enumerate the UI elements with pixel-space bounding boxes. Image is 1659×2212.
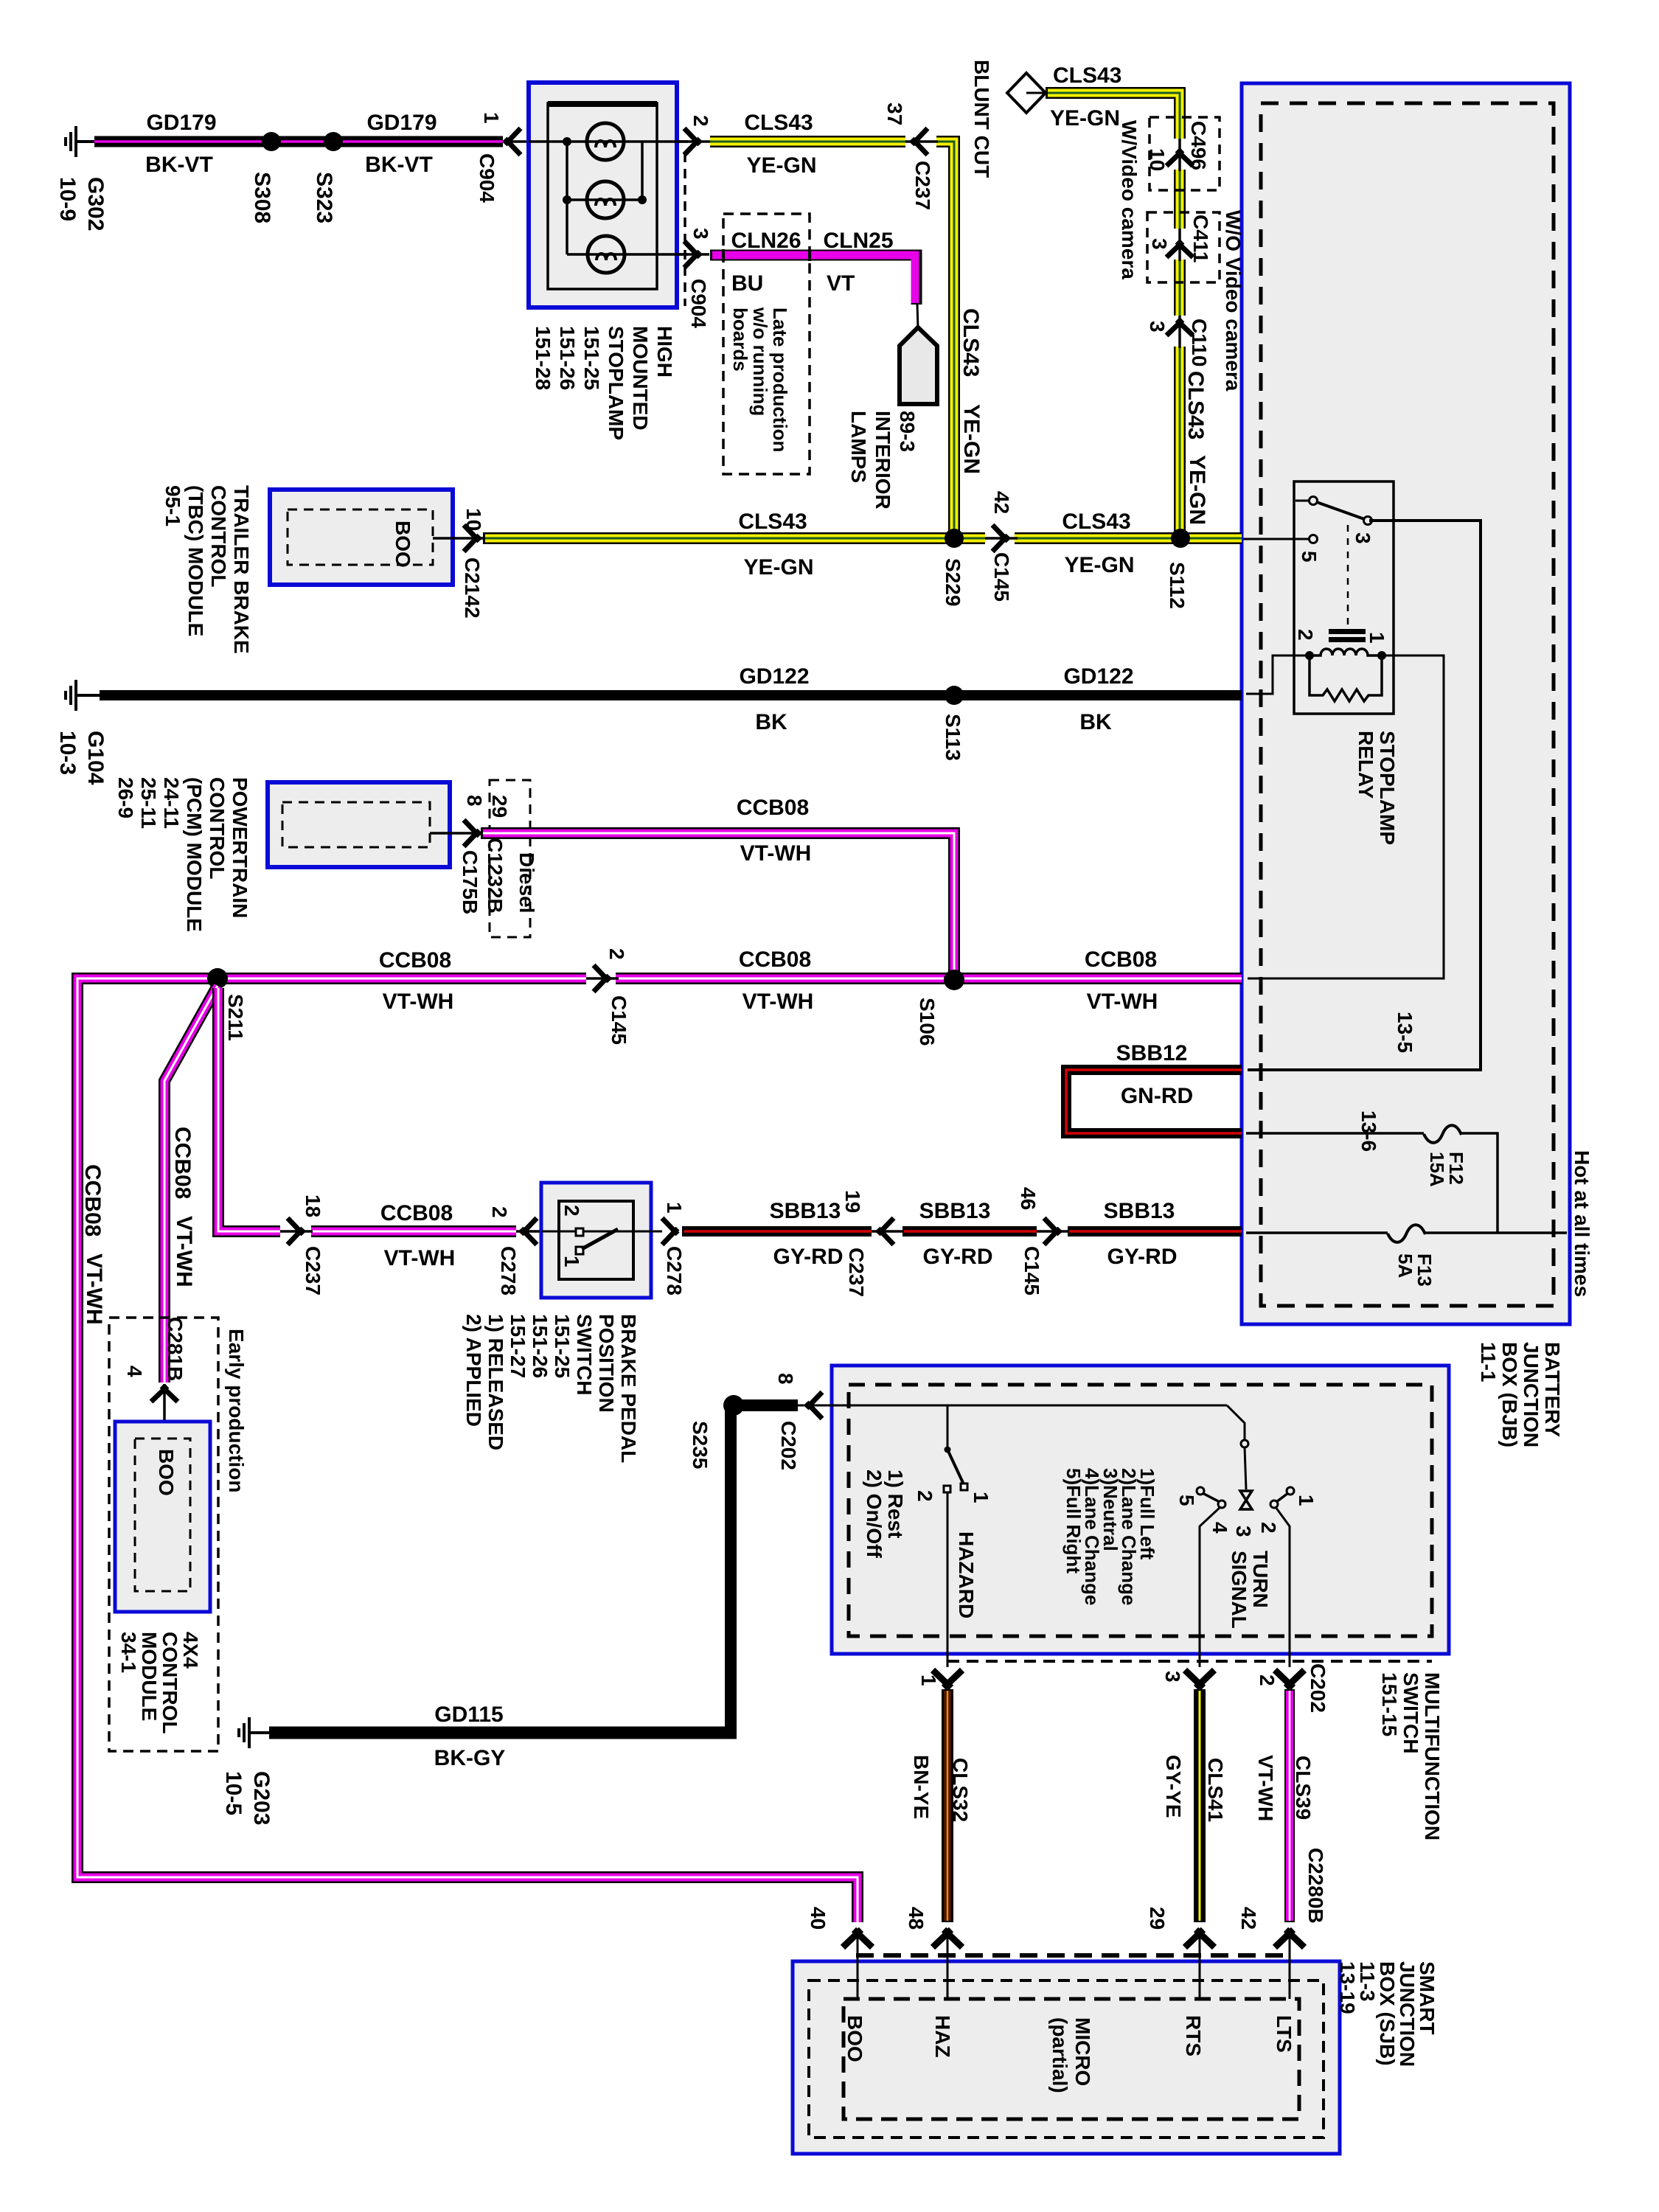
wire CLN26 BU [710, 250, 810, 261]
svg-text:CCB08: CCB08 [739, 947, 811, 972]
svg-text:C202: C202 [777, 1421, 800, 1470]
svg-text:8: 8 [463, 795, 486, 807]
svg-text:HAZARD: HAZARD [955, 1531, 978, 1618]
svg-text:13-5: 13-5 [1394, 1012, 1416, 1053]
wire CCB08 VT-WH S211 to brake switch [218, 988, 516, 1231]
svg-text:BOO: BOO [844, 2015, 866, 2062]
connector C411 dashed box [1147, 212, 1220, 282]
svg-text:MICRO(partial): MICRO(partial) [1048, 2017, 1094, 2093]
svg-text:VT: VT [827, 271, 855, 296]
connector C281B pin 4 [151, 1384, 178, 1422]
svg-text:10: 10 [1146, 148, 1169, 171]
relay coil [1310, 649, 1382, 655]
svg-text:C2142: C2142 [461, 557, 484, 619]
splice S308 [262, 132, 281, 151]
svg-text:C281B: C281B [164, 1317, 187, 1381]
svg-text:YE-GN: YE-GN [746, 153, 816, 178]
SJB gray fill [793, 1961, 1340, 2154]
svg-text:C175B: C175B [459, 850, 481, 914]
svg-text:C110: C110 [1188, 319, 1211, 366]
stoplamp relay box [1294, 481, 1394, 714]
splice S235 [723, 1395, 744, 1416]
connector SJB pin 48 [933, 1930, 962, 1999]
svg-text:48: 48 [905, 1907, 928, 1930]
BJB gray fill [1242, 83, 1570, 1324]
svg-text:CLS41: CLS41 [1204, 1758, 1227, 1822]
svg-text:1: 1 [917, 1674, 940, 1686]
4X4 CONTROL MODULE box [115, 1422, 210, 1612]
svg-text:2: 2 [605, 948, 628, 960]
svg-text:Early production: Early production [225, 1329, 248, 1492]
svg-text:S235: S235 [689, 1421, 712, 1469]
svg-text:SBB13: SBB13 [919, 1199, 991, 1223]
svg-text:GY-YE: GY-YE [1162, 1755, 1185, 1818]
turn signal feed [1227, 1405, 1248, 1489]
svg-text:C2280B: C2280B [1304, 1848, 1327, 1924]
svg-text:CCB08: CCB08 [1085, 947, 1157, 972]
relay coil plates [1329, 629, 1366, 634]
svg-text:CLS39: CLS39 [1292, 1756, 1315, 1820]
TS output wire right [1276, 1507, 1290, 1667]
connector C237 pin 18 [280, 1218, 313, 1245]
svg-text:2: 2 [560, 1205, 583, 1217]
svg-text:C237: C237 [911, 161, 934, 210]
ground G203 [237, 1717, 271, 1748]
svg-text:4: 4 [123, 1366, 146, 1377]
wire CLS43 YE-GN from stoplamp pin2 [710, 142, 954, 538]
svg-text:GY-RD: GY-RD [1107, 1245, 1177, 1269]
svg-text:CCB08: CCB08 [380, 1201, 453, 1225]
wire pin2 to GD122 [1246, 655, 1307, 694]
POWERTRAIN CONTROL (PCM) MODULE box [268, 782, 450, 867]
svg-text:1: 1 [480, 112, 503, 124]
svg-text:8: 8 [774, 1373, 797, 1385]
Early production dashed box [109, 1318, 218, 1751]
connector SJB pin 42 [1275, 1930, 1304, 1999]
splice S106 [944, 970, 964, 990]
svg-text:5: 5 [1175, 1495, 1198, 1506]
connector C1232B dashed box (Diesel) [490, 780, 530, 937]
connector C2142 pin 10 [433, 525, 483, 552]
TS output wire left [1200, 1507, 1220, 1667]
svg-text:BU: BU [731, 271, 763, 296]
MFS gray fill [832, 1366, 1449, 1654]
svg-text:C496: C496 [1187, 121, 1210, 170]
wire GD115 BK-GY [269, 1727, 737, 1739]
connector C278 pin 2 [516, 1218, 541, 1245]
svg-text:VT-WH: VT-WH [1254, 1755, 1277, 1821]
stoplamp internal wiring [529, 142, 688, 254]
svg-text:4: 4 [1208, 1522, 1231, 1534]
svg-text:SBB13: SBB13 [770, 1199, 841, 1223]
svg-text:18: 18 [302, 1194, 324, 1217]
connector C145 pin 42 [985, 525, 1018, 552]
wire CCB08 VT-WH main run [77, 978, 1242, 1922]
wire relay pin5 feed [1243, 538, 1309, 540]
lamp bulb 3 [588, 236, 625, 273]
svg-text:GY-RD: GY-RD [773, 1245, 843, 1269]
splice S112 [1171, 529, 1190, 548]
connector SJB pin 40 [843, 1930, 872, 1999]
splice S323 [324, 132, 343, 151]
wire GD122 BK [100, 690, 1242, 700]
svg-text:LTS: LTS [1273, 2015, 1295, 2053]
svg-text:S308: S308 [250, 172, 274, 223]
svg-text:BN-YE: BN-YE [910, 1755, 933, 1819]
wire C202-8 feed into MFS [818, 1405, 1227, 1407]
ground G302 [64, 126, 96, 157]
wire S235 down to GD115 [725, 1411, 737, 1733]
connector C496 pin 10 [1166, 139, 1193, 171]
svg-text:CLN26: CLN26 [731, 229, 801, 253]
svg-text:F1215A: F1215A [1426, 1152, 1467, 1187]
svg-text:YE-GN: YE-GN [743, 555, 813, 580]
svg-text:S112: S112 [1166, 562, 1189, 609]
svg-text:C904: C904 [476, 153, 498, 203]
svg-text:CCB08: CCB08 [379, 948, 451, 973]
svg-text:CCB08: CCB08 [737, 796, 809, 820]
connector C496 dashed box [1150, 117, 1220, 190]
svg-text:VT-WH: VT-WH [1087, 990, 1158, 1014]
svg-text:GD115: GD115 [434, 1703, 503, 1727]
wire pin3 to SBB12 [1248, 521, 1481, 1070]
relay switch blade [1315, 501, 1366, 520]
svg-text:BOO: BOO [155, 1449, 178, 1496]
svg-text:3: 3 [1352, 532, 1374, 544]
svg-text:Hot at all times: Hot at all times [1571, 1150, 1593, 1297]
fuse F12 [1424, 1125, 1461, 1143]
svg-text:BK: BK [755, 710, 787, 734]
svg-text:42: 42 [1237, 1907, 1260, 1930]
svg-text:HAZ: HAZ [931, 2015, 954, 2058]
svg-text:C904: C904 [687, 279, 710, 328]
svg-text:BLUNT CUT: BLUNT CUT [970, 60, 993, 178]
svg-text:CLS43: CLS43 [738, 509, 807, 534]
svg-text:VT-WH: VT-WH [82, 1253, 106, 1325]
svg-text:W/Video camera: W/Video camera [1118, 120, 1141, 279]
connector C202 pin 1 arrow [933, 1670, 962, 1688]
svg-text:YE-GN: YE-GN [1064, 553, 1134, 577]
svg-text:1: 1 [1366, 632, 1388, 644]
svg-text:GD179: GD179 [146, 111, 216, 135]
turn signal contact 1 [1270, 1487, 1294, 1508]
svg-text:5: 5 [1298, 551, 1321, 563]
svg-text:S211: S211 [224, 994, 247, 1041]
connector C904 pin 1 [503, 128, 529, 155]
svg-text:42: 42 [990, 491, 1013, 514]
Late production dashed box [723, 214, 810, 474]
wire CLS39 VT-WH [1284, 1689, 1295, 1922]
svg-text:29: 29 [1146, 1907, 1169, 1930]
wire relay pin3 stub [1295, 500, 1310, 502]
svg-text:GD179: GD179 [366, 111, 437, 135]
connector C175B pin 8 [430, 820, 483, 846]
connector C110 pin 3 [1166, 316, 1193, 348]
turn signal contact 5 [1197, 1487, 1225, 1508]
svg-text:3: 3 [1161, 1671, 1184, 1683]
connector C237 pin 19 [872, 1218, 904, 1245]
svg-text:2: 2 [1294, 629, 1317, 641]
svg-text:GD122: GD122 [1063, 664, 1133, 689]
brake switch internals [541, 1228, 662, 1254]
connector C202 pin 3 arrow [1185, 1670, 1214, 1688]
BRAKE PEDAL POSITION SWITCH box [541, 1183, 651, 1298]
svg-text:C1232B: C1232B [484, 838, 507, 914]
wire CLS32 BN-YE [942, 1689, 953, 1922]
svg-text:2: 2 [689, 115, 712, 127]
svg-text:46: 46 [1017, 1187, 1040, 1210]
relay armature dashed link [1347, 525, 1349, 625]
svg-text:GY-RD: GY-RD [922, 1245, 992, 1269]
svg-text:C145: C145 [1020, 1246, 1043, 1295]
relay pin5 contact [1310, 535, 1318, 543]
svg-text:S113: S113 [942, 714, 964, 761]
svg-text:37: 37 [883, 102, 906, 125]
svg-text:2: 2 [914, 1490, 936, 1502]
dashed connector row [856, 1953, 1291, 1958]
svg-text:C145: C145 [608, 995, 630, 1045]
wire CLS41 GY-YE [1194, 1689, 1206, 1922]
connector C237 pin 37 [905, 128, 938, 155]
connector C145 pin 2 [586, 965, 619, 992]
wire S235 to C202 [737, 1399, 798, 1411]
hazard switch [944, 1405, 967, 1667]
svg-text:GN-RD: GN-RD [1121, 1084, 1193, 1108]
connector SJB pin 29 [1185, 1930, 1214, 1999]
connector C202 pin 2 arrow [1275, 1670, 1304, 1688]
splice S211 [207, 968, 228, 989]
connector C904 pin 2 [677, 128, 710, 155]
connector C145 pin 46 [1037, 1218, 1069, 1245]
svg-text:S323: S323 [312, 172, 336, 223]
svg-text:GD122: GD122 [739, 664, 809, 689]
svg-text:CLS32: CLS32 [949, 1758, 972, 1822]
svg-text:1: 1 [560, 1256, 583, 1267]
svg-text:2: 2 [488, 1206, 511, 1218]
wire CCB08 VT-WH from PCM [481, 833, 954, 975]
connector C202 dashed link [947, 1660, 1432, 1663]
svg-text:YE-GN: YE-GN [1185, 455, 1209, 525]
connector C202 pin 8 [798, 1392, 833, 1419]
svg-text:Diesel: Diesel [515, 852, 538, 914]
svg-text:VT-WH: VT-WH [742, 990, 814, 1014]
svg-text:40: 40 [807, 1907, 829, 1930]
svg-text:3: 3 [1232, 1526, 1255, 1537]
connector C411 pin 3 [1166, 229, 1193, 261]
wire GD179 BK-VT [94, 136, 503, 147]
dashed connector link C904 [684, 153, 686, 306]
lamp bulb 1 [587, 123, 624, 160]
svg-text:YE-GN: YE-GN [1050, 106, 1120, 131]
BLUNT CUT connector [1007, 73, 1046, 113]
svg-text:RTS: RTS [1182, 2015, 1205, 2056]
svg-text:29: 29 [488, 795, 511, 818]
svg-text:CLS43: CLS43 [959, 308, 983, 377]
svg-text:2: 2 [1257, 1522, 1280, 1534]
svg-text:VT-WH: VT-WH [740, 841, 812, 866]
wire pin1 to CCB08 [1248, 655, 1444, 978]
svg-text:3: 3 [689, 228, 712, 240]
svg-text:3: 3 [1146, 321, 1169, 333]
wire CCB08 VT-WH diagonal to C281B [164, 986, 218, 1382]
svg-text:VT-WH: VT-WH [383, 990, 454, 1014]
svg-text:YE-GN: YE-GN [959, 404, 984, 474]
wire CLS43 YE-GN TBC to BJB [483, 532, 1242, 544]
wire SBB12 to fuse F12 [1246, 1132, 1424, 1135]
svg-text:CLS43: CLS43 [1062, 509, 1130, 534]
svg-text:C411: C411 [1189, 215, 1212, 262]
svg-text:C202: C202 [1307, 1663, 1329, 1713]
svg-text:CLS43: CLS43 [744, 111, 813, 135]
svg-text:CCB08: CCB08 [170, 1127, 195, 1199]
svg-text:SBB13: SBB13 [1104, 1199, 1175, 1223]
HIGH MOUNTED STOPLAMP module [529, 83, 677, 307]
interior lamps connector pentagon [900, 305, 937, 404]
svg-text:2: 2 [1256, 1674, 1279, 1686]
svg-text:C278: C278 [497, 1246, 520, 1295]
svg-text:S229: S229 [942, 558, 964, 606]
svg-text:C237: C237 [302, 1246, 324, 1295]
svg-text:1: 1 [970, 1492, 992, 1503]
svg-text:3: 3 [1148, 238, 1171, 250]
splice S113 [945, 686, 964, 705]
relay resistor [1310, 655, 1382, 701]
turn signal bowtie contact [1240, 1491, 1252, 1509]
svg-text:VT-WH: VT-WH [384, 1246, 456, 1270]
svg-text:10: 10 [462, 508, 485, 531]
svg-text:W/O Video camera: W/O Video camera [1222, 210, 1245, 392]
svg-text:CLS43: CLS43 [1053, 63, 1121, 88]
svg-text:SBB12: SBB12 [1116, 1041, 1188, 1065]
ground G104 [64, 680, 102, 711]
wire SBB13 to fuse F13 [1246, 1231, 1388, 1234]
wire CLN25 VT [810, 255, 917, 305]
svg-text:C237: C237 [845, 1248, 868, 1297]
svg-text:CLS43: CLS43 [1183, 371, 1208, 439]
svg-text:19: 19 [841, 1190, 864, 1213]
svg-text:CCB08: CCB08 [80, 1164, 105, 1237]
wire SBB13 GY-RD [682, 1226, 1242, 1237]
wire CLS43 YE-GN to camera [1046, 93, 1180, 532]
svg-text:BK: BK [1079, 710, 1112, 734]
svg-text:BK-VT: BK-VT [365, 153, 433, 177]
fuse F13 [1388, 1225, 1425, 1242]
svg-text:C278: C278 [663, 1246, 686, 1295]
svg-text:BK-VT: BK-VT [145, 153, 213, 177]
connector C278 pin 1 [662, 1218, 678, 1245]
svg-text:BK-GY: BK-GY [434, 1746, 506, 1770]
wire SBB12 GN-RD loop [1066, 1070, 1242, 1133]
splice S229 [945, 529, 964, 548]
connector C904 pin 3 [677, 241, 709, 268]
TRAILER BRAKE CONTROL (TBC) MODULE box [270, 490, 453, 585]
svg-text:1: 1 [1295, 1495, 1318, 1506]
svg-text:S106: S106 [916, 998, 939, 1046]
svg-text:VT-WH: VT-WH [172, 1216, 196, 1287]
lamp bulb 2 [587, 181, 624, 218]
svg-text:BOO: BOO [392, 521, 414, 568]
svg-text:1: 1 [663, 1202, 686, 1214]
svg-text:13-6: 13-6 [1357, 1110, 1380, 1152]
svg-text:C145: C145 [990, 552, 1013, 602]
svg-text:CLN25: CLN25 [823, 229, 893, 253]
